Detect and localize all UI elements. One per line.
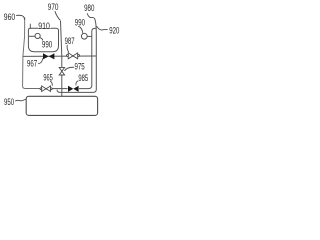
svg-text:967: 967 (27, 58, 37, 69)
svg-text:980: 980 (84, 2, 94, 13)
svg-text:985: 985 (78, 72, 88, 83)
svg-text:970: 970 (48, 1, 59, 12)
svg-text:960: 960 (4, 11, 15, 22)
svg-text:975: 975 (75, 60, 85, 71)
svg-text:920: 920 (109, 25, 119, 36)
svg-text:990: 990 (42, 39, 52, 50)
svg-text:910: 910 (38, 20, 50, 31)
svg-text:965: 965 (43, 72, 52, 83)
svg-text:987: 987 (65, 35, 75, 46)
svg-text:950: 950 (4, 96, 14, 107)
svg-text:990: 990 (75, 17, 85, 28)
